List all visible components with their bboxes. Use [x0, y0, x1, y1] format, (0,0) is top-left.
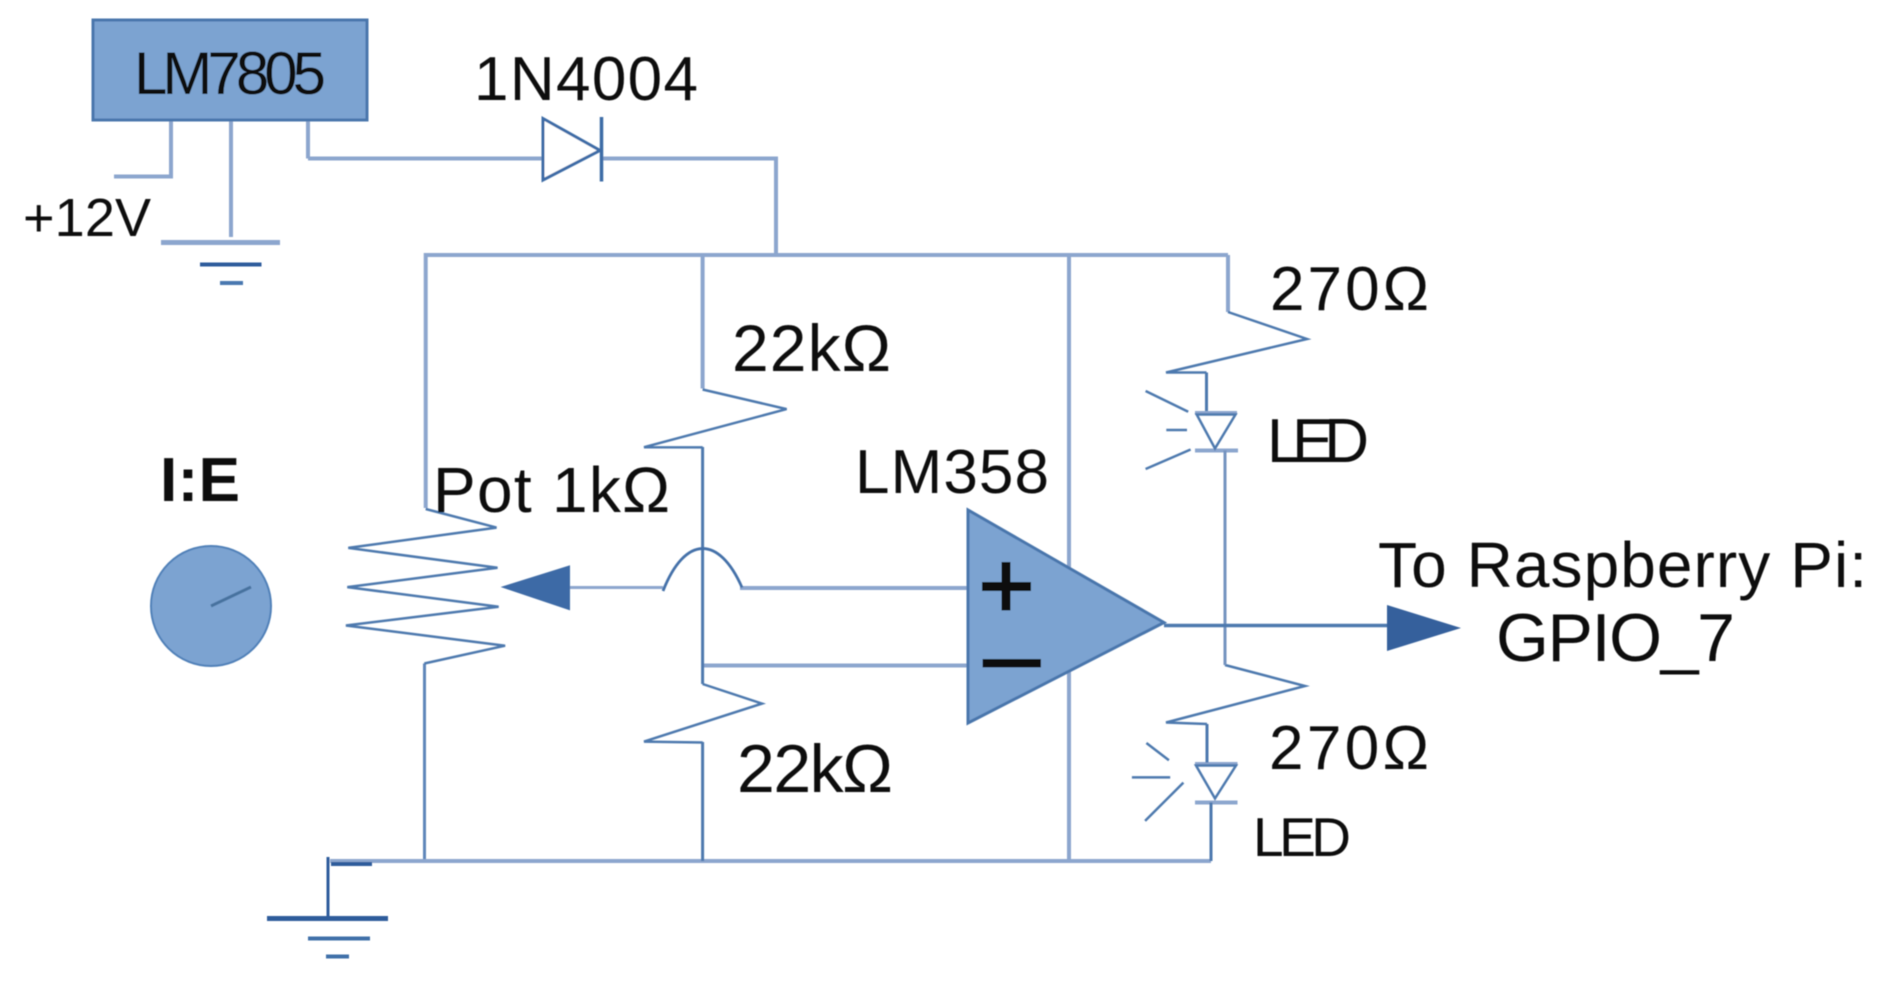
svg-text:22kΩ: 22kΩ	[737, 731, 893, 807]
svg-text:GPIO_7: GPIO_7	[1496, 600, 1735, 676]
svg-text:LED: LED	[1267, 407, 1369, 476]
svg-text:LM7805: LM7805	[134, 40, 326, 107]
svg-text:I:E: I:E	[160, 446, 240, 515]
svg-text:LED: LED	[1253, 806, 1351, 868]
svg-text:To Raspberry Pi:: To Raspberry Pi:	[1378, 529, 1867, 601]
svg-text:270Ω: 270Ω	[1269, 714, 1429, 783]
svg-text:270Ω: 270Ω	[1270, 255, 1429, 324]
svg-text:22kΩ: 22kΩ	[732, 311, 891, 385]
svg-text:1N4004: 1N4004	[474, 45, 698, 114]
svg-text:LM358: LM358	[855, 438, 1049, 507]
svg-text:Pot 1kΩ: Pot 1kΩ	[433, 454, 670, 526]
svg-text:+12V: +12V	[23, 188, 151, 248]
